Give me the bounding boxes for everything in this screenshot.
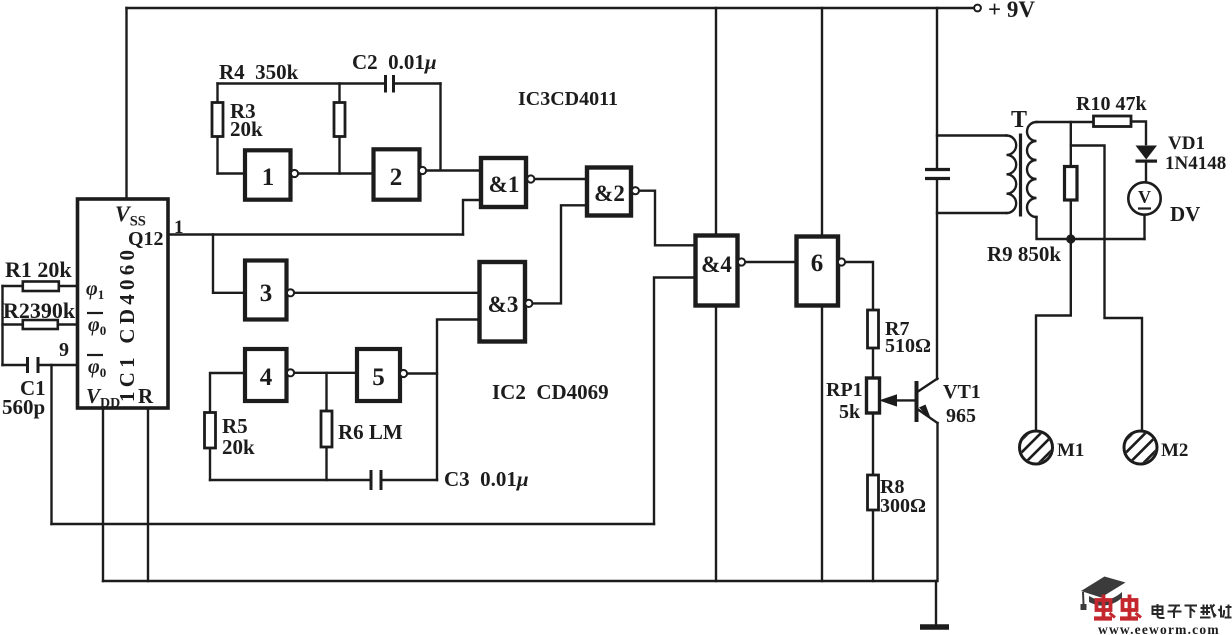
svg-text:T: T (1011, 107, 1027, 133)
svg-text:www.eeworm.com: www.eeworm.com (1098, 622, 1220, 635)
svg-text:R6 LM: R6 LM (338, 420, 403, 444)
svg-text:M1: M1 (1057, 440, 1084, 461)
svg-text:R10 47k: R10 47k (1076, 93, 1147, 115)
svg-text:1N4148: 1N4148 (1165, 153, 1226, 174)
svg-text:5: 5 (372, 364, 385, 391)
svg-text:+ 9V: + 9V (988, 0, 1035, 22)
svg-text:V: V (1138, 187, 1151, 207)
svg-text:1: 1 (262, 164, 275, 191)
svg-text:R9 850k: R9 850k (987, 242, 1061, 266)
svg-text:&4: &4 (701, 252, 732, 277)
svg-text:C3 0.01μ: C3 0.01μ (444, 467, 529, 491)
svg-text:&3: &3 (488, 292, 519, 317)
svg-text:6: 6 (811, 250, 824, 277)
svg-text:Q12: Q12 (128, 228, 164, 250)
svg-text:20k: 20k (222, 435, 255, 459)
svg-text:R2390k: R2390k (3, 298, 76, 323)
svg-text:C2 0.01μ: C2 0.01μ (352, 50, 437, 74)
svg-text:1: 1 (174, 217, 184, 238)
svg-text:R4 350k: R4 350k (219, 60, 299, 84)
svg-text:300Ω: 300Ω (880, 495, 926, 517)
svg-text:IC2 CD4069: IC2 CD4069 (492, 380, 609, 404)
svg-text:4: 4 (260, 364, 273, 391)
svg-text:R: R (138, 384, 154, 408)
svg-text:DV: DV (1170, 202, 1200, 226)
svg-text:IC3CD4011: IC3CD4011 (518, 88, 618, 110)
svg-text:VD1: VD1 (1168, 133, 1205, 154)
svg-text:&2: &2 (594, 181, 625, 206)
svg-text:3: 3 (260, 280, 273, 307)
svg-text:20k: 20k (230, 117, 263, 141)
svg-text:5k: 5k (839, 401, 861, 423)
svg-text:VT1: VT1 (943, 381, 981, 403)
svg-text:M2: M2 (1161, 440, 1188, 461)
svg-text:9: 9 (59, 339, 69, 361)
svg-text:510Ω: 510Ω (885, 335, 931, 357)
svg-text:&1: &1 (489, 172, 520, 197)
svg-text:2: 2 (390, 164, 403, 191)
svg-text:965: 965 (946, 405, 976, 427)
svg-text:R1 20k: R1 20k (5, 257, 72, 282)
svg-text:560p: 560p (2, 395, 45, 419)
svg-text:RP1: RP1 (826, 379, 863, 401)
